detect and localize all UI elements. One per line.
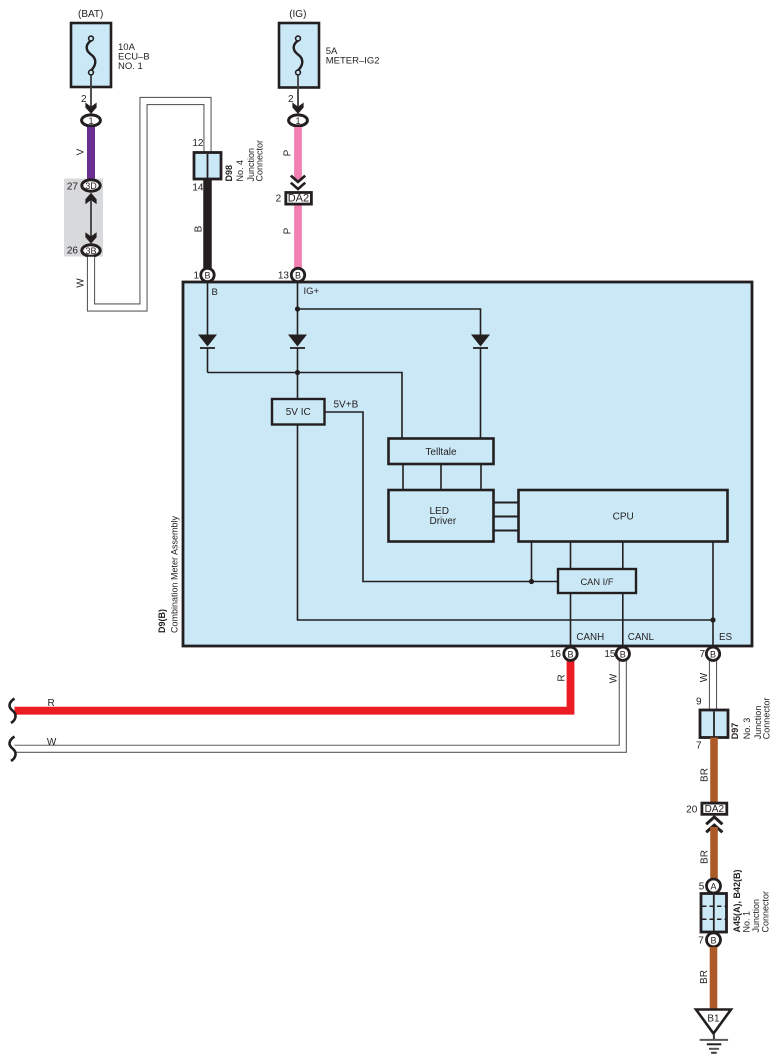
svg-text:1: 1 [193,271,199,282]
svg-text:W: W [608,673,619,683]
svg-text:27: 27 [67,182,79,193]
svg-text:W: W [699,672,710,682]
svg-text:B: B [194,225,205,232]
svg-text:B: B [710,649,716,659]
svg-text:No. 4: No. 4 [235,160,245,182]
svg-text:P: P [283,227,294,234]
svg-text:D9(B): D9(B) [157,609,167,633]
svg-text:V: V [76,148,87,155]
svg-text:BR: BR [700,768,711,782]
svg-text:12: 12 [192,138,204,149]
svg-text:7: 7 [699,649,705,660]
svg-text:Telltale: Telltale [425,447,457,458]
svg-text:7: 7 [696,741,702,752]
svg-text:B1: B1 [707,1014,720,1025]
svg-text:D98: D98 [224,165,234,182]
svg-text:B: B [204,271,210,281]
svg-text:A: A [710,882,716,892]
svg-text:Connector: Connector [762,698,772,740]
svg-text:No. 1: No. 1 [741,911,751,933]
svg-text:W: W [76,278,87,288]
svg-text:B: B [295,271,301,281]
svg-text:Junction: Junction [751,899,761,933]
svg-text:R: R [557,674,568,681]
svg-text:5V+B: 5V+B [334,400,359,411]
svg-text:P: P [283,149,294,156]
svg-text:5V IC: 5V IC [286,407,311,418]
svg-text:IG+: IG+ [304,286,320,297]
svg-text:1: 1 [295,116,300,126]
svg-text:CANH: CANH [576,632,604,643]
svg-text:ES: ES [719,632,733,643]
svg-text:26: 26 [67,246,79,257]
svg-text:Combination Meter Assembly: Combination Meter Assembly [170,515,180,633]
svg-text:METER–IG2: METER–IG2 [326,56,380,67]
svg-text:9: 9 [696,696,702,707]
svg-text:D97: D97 [730,723,740,740]
svg-text:B: B [212,287,218,298]
svg-text:W: W [47,737,57,748]
svg-text:Driver: Driver [430,516,457,527]
svg-text:14: 14 [192,183,204,194]
svg-text:5: 5 [699,881,705,892]
svg-text:B: B [567,649,573,659]
svg-text:7: 7 [698,935,704,946]
svg-text:16: 16 [550,649,562,660]
svg-text:15: 15 [604,649,616,660]
svg-text:(BAT): (BAT) [78,9,103,20]
svg-text:Connector: Connector [761,891,771,933]
svg-text:DA2: DA2 [288,193,309,205]
svg-text:BR: BR [700,850,711,864]
svg-text:CANL: CANL [628,632,655,643]
svg-text:B: B [710,935,716,945]
svg-text:Connector: Connector [255,140,265,182]
svg-text:NO. 1: NO. 1 [118,61,143,72]
svg-text:1: 1 [88,116,93,126]
svg-text:3D: 3D [85,181,97,191]
svg-text:(IG): (IG) [289,9,306,20]
svg-text:B: B [620,649,626,659]
svg-text:CAN I/F: CAN I/F [580,577,613,587]
svg-text:13: 13 [278,271,290,282]
svg-text:No. 3: No. 3 [742,718,752,740]
svg-text:3B: 3B [85,246,96,256]
svg-text:20: 20 [686,804,698,815]
svg-text:CPU: CPU [613,511,634,522]
svg-text:2: 2 [276,194,282,205]
svg-text:BR: BR [699,970,710,984]
svg-text:DA2: DA2 [705,804,725,815]
svg-text:R: R [48,698,55,709]
